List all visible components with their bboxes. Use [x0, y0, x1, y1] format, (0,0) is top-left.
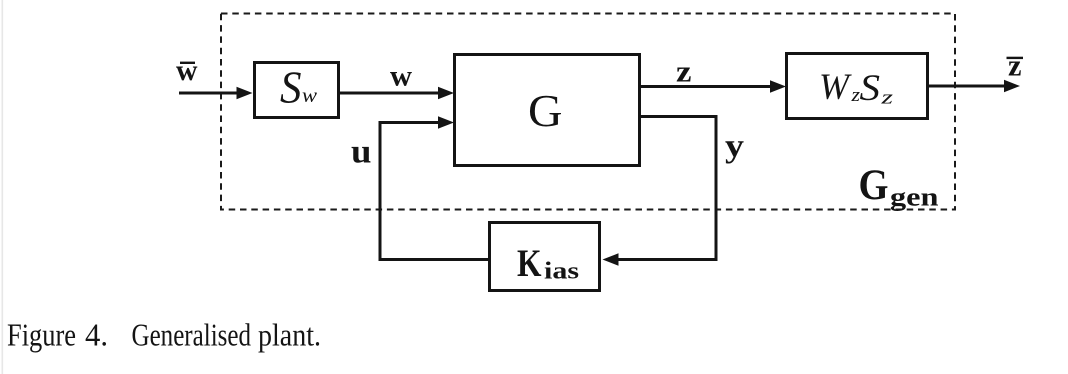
svg-text:w: w — [390, 60, 412, 93]
label zbar — [1007, 48, 1024, 83]
label wbar — [176, 54, 198, 87]
wire y horizontal from G — [640, 115, 718, 118]
wire u bottom horizontal — [379, 258, 490, 261]
label Sw — [280, 63, 317, 113]
svg-text:S: S — [860, 68, 881, 109]
dashed boundary Ggen — [221, 14, 955, 210]
label Kias — [517, 242, 579, 285]
block G — [455, 55, 640, 166]
svg-text:W: W — [819, 67, 852, 108]
svg-text:K: K — [517, 242, 542, 285]
svg-text:4.: 4. — [85, 317, 108, 353]
caption Figure 4. Generalised plant. — [7, 317, 321, 353]
wire zbar output — [928, 80, 1020, 92]
block WzSz — [787, 54, 928, 119]
svg-text:Generalised: Generalised — [132, 317, 252, 353]
svg-text:w: w — [302, 86, 317, 107]
block Sw — [255, 63, 339, 118]
svg-text:G: G — [859, 161, 889, 209]
label Ggen — [859, 161, 940, 212]
wire z (G to WzSz) — [640, 80, 786, 92]
svg-text:z: z — [880, 88, 894, 109]
svg-text:G: G — [528, 86, 563, 136]
svg-text:w: w — [176, 54, 198, 87]
svg-text:Figure: Figure — [7, 317, 76, 353]
wire y vertical — [715, 115, 718, 261]
svg-text:u: u — [351, 134, 372, 171]
svg-text:S: S — [280, 63, 302, 113]
svg-text:ias: ias — [544, 259, 579, 285]
wire Sw to G (w) — [339, 87, 454, 99]
svg-text:y: y — [725, 129, 745, 165]
svg-text:z: z — [676, 54, 692, 89]
svg-text:z: z — [1008, 48, 1022, 83]
label WzSz — [819, 67, 894, 109]
svg-text:gen: gen — [890, 183, 939, 212]
wire u horizontal into G — [379, 116, 455, 128]
block Kias — [490, 223, 600, 291]
svg-text:plant.: plant. — [258, 317, 321, 353]
wire y bottom into Kias — [603, 253, 718, 265]
wire wbar input arrow — [179, 87, 253, 99]
wire u vertical — [379, 121, 382, 261]
